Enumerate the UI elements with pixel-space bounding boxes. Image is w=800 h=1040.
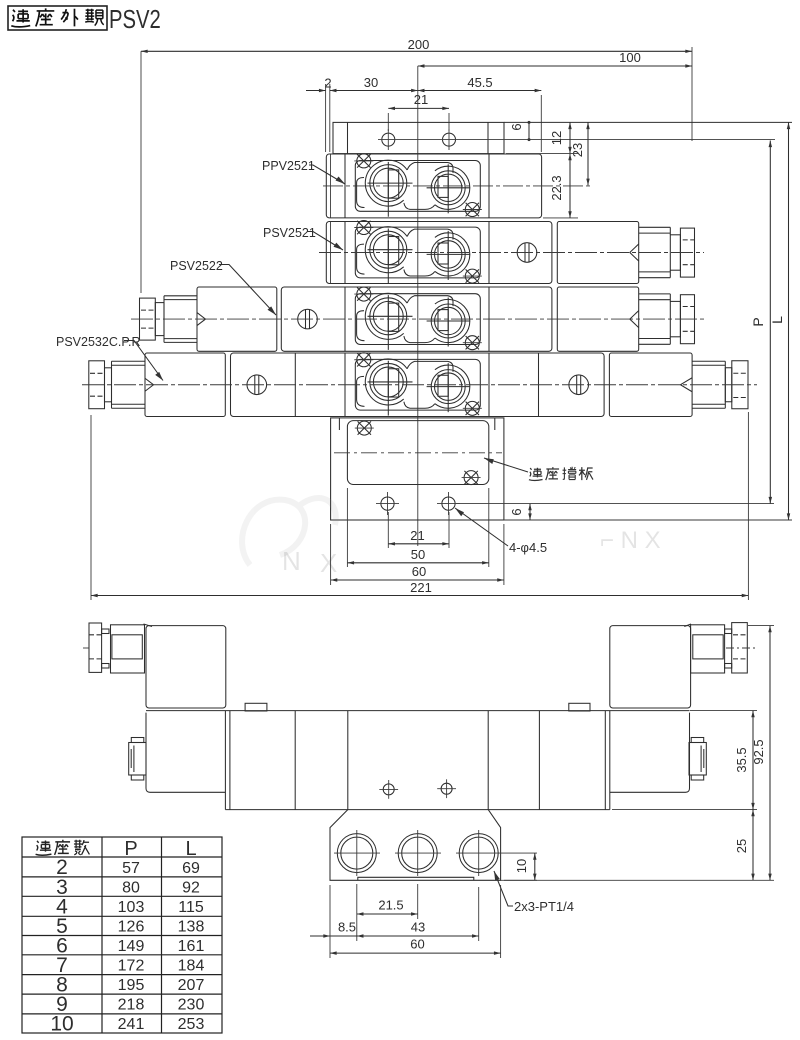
svg-text:8.5: 8.5 bbox=[338, 920, 356, 935]
row4 valve face ports bbox=[354, 353, 482, 416]
dim 221 bbox=[91, 412, 748, 600]
top plate bbox=[333, 122, 504, 153]
label PSV2521 bbox=[263, 226, 343, 250]
label 4-phi4.5 bbox=[455, 508, 547, 555]
row3 flow arrow right bbox=[630, 311, 639, 328]
svg-text:PSV2532C.P.R: PSV2532C.P.R bbox=[56, 335, 141, 349]
row4 PSV2532C.P.R valve bbox=[82, 353, 757, 417]
svg-text:60: 60 bbox=[410, 937, 424, 952]
svg-text:10: 10 bbox=[514, 859, 529, 873]
svg-text:21.5: 21.5 bbox=[378, 898, 403, 913]
svg-text:50: 50 bbox=[411, 547, 425, 562]
port 1 bbox=[334, 830, 380, 876]
label PPV2521 bbox=[262, 159, 345, 184]
svg-text:L: L bbox=[769, 316, 785, 324]
row4 left cap bbox=[89, 361, 105, 409]
row4 body bbox=[231, 353, 605, 417]
svg-text:25: 25 bbox=[734, 839, 749, 853]
dim 2 bbox=[306, 76, 332, 153]
row4 right prongs bbox=[692, 360, 725, 362]
title box bbox=[8, 5, 161, 34]
svg-text:⌐ N X: ⌐ N X bbox=[600, 527, 661, 554]
center axis vertical bbox=[417, 66, 419, 546]
dim 21 bottom bbox=[388, 512, 449, 548]
svg-text:22.3: 22.3 bbox=[549, 175, 564, 200]
right plug centerline bbox=[726, 647, 757, 649]
plate tab hole right bbox=[437, 492, 460, 515]
right solenoid block bbox=[610, 624, 691, 708]
svg-text:6: 6 bbox=[509, 123, 524, 130]
svg-text:60: 60 bbox=[412, 564, 426, 579]
dim 92.5 bbox=[504, 626, 774, 881]
top band lines bbox=[504, 121, 792, 123]
svg-text:21: 21 bbox=[414, 92, 428, 107]
port block bbox=[330, 810, 501, 881]
svg-text:230: 230 bbox=[178, 997, 205, 1014]
svg-text:4-φ4.5: 4-φ4.5 bbox=[509, 540, 547, 555]
dim 45.5 bbox=[418, 75, 542, 152]
tab hole centerline to P dim bbox=[456, 503, 774, 505]
svg-text:218: 218 bbox=[118, 997, 145, 1014]
main body bbox=[146, 711, 690, 810]
dim 100 bbox=[418, 50, 692, 66]
dim 43 bbox=[357, 887, 479, 941]
row2 centerline bbox=[319, 252, 704, 254]
svg-text:138: 138 bbox=[178, 919, 205, 936]
dim 12 bbox=[549, 122, 570, 153]
dim L bbox=[769, 122, 789, 520]
svg-text:149: 149 bbox=[118, 938, 145, 955]
label PSV2522 bbox=[170, 259, 276, 315]
plate bottom line to L dim bbox=[504, 519, 792, 521]
svg-text:221: 221 bbox=[410, 580, 432, 595]
row3 left solenoid bbox=[197, 287, 277, 351]
row3 solenoid right bbox=[557, 287, 638, 351]
dim 22.3 bbox=[506, 154, 578, 218]
svg-text:6: 6 bbox=[509, 508, 524, 515]
row4 right cap bbox=[732, 361, 748, 409]
bottom plate bbox=[331, 418, 504, 520]
svg-text:X: X bbox=[320, 548, 337, 578]
right plug neck bars bbox=[725, 629, 732, 634]
row2 PSV2521 valve bbox=[319, 221, 704, 284]
svg-text:23: 23 bbox=[570, 143, 585, 157]
plate bolt bottom-right bbox=[462, 471, 481, 485]
body top tabs bbox=[245, 703, 267, 711]
row3 valve face ports bbox=[354, 287, 482, 350]
svg-text:69: 69 bbox=[182, 860, 200, 877]
row4 solenoid right bbox=[609, 353, 692, 417]
dim 30 bbox=[330, 75, 418, 91]
row3 left cap bbox=[140, 298, 156, 340]
svg-text:126: 126 bbox=[118, 919, 145, 936]
svg-text:253: 253 bbox=[178, 1016, 205, 1033]
label PSV2532C.P.R bbox=[56, 335, 163, 381]
row2 valve face ports bbox=[354, 221, 482, 284]
row4 left solenoid bbox=[145, 353, 225, 417]
left DIN plug cap bbox=[89, 623, 102, 672]
body small hole right bbox=[437, 779, 456, 798]
svg-text:12: 12 bbox=[549, 131, 564, 145]
plate hole right bbox=[443, 129, 456, 150]
dim 21 top bbox=[388, 92, 449, 131]
row1 valve face ports bbox=[354, 154, 482, 217]
svg-text:L: L bbox=[185, 838, 196, 860]
row4 adjustment screw left bbox=[247, 375, 267, 395]
label 2x3-PT1/4 bbox=[494, 871, 574, 914]
body small hole left bbox=[379, 780, 398, 799]
port 2 bbox=[395, 830, 441, 876]
svg-text:172: 172 bbox=[118, 958, 145, 975]
left plug body bbox=[111, 625, 145, 673]
svg-text:21: 21 bbox=[410, 528, 424, 543]
row4 flow arrow left bbox=[145, 378, 154, 391]
svg-text:P: P bbox=[124, 838, 137, 860]
watermark bbox=[242, 498, 336, 565]
right nut bbox=[689, 738, 706, 781]
svg-text:PPV2521: PPV2521 bbox=[262, 159, 315, 173]
svg-text:35.5: 35.5 bbox=[734, 747, 749, 772]
dim 25 bbox=[734, 810, 753, 881]
row4 centerline bbox=[82, 384, 757, 386]
right DIN plug body bbox=[691, 625, 725, 673]
label 連座擋板 bbox=[484, 458, 593, 480]
dim 23 bbox=[570, 122, 588, 185]
row2 adjustment screw bbox=[517, 243, 537, 263]
svg-text:200: 200 bbox=[408, 37, 430, 52]
svg-text:N: N bbox=[282, 546, 301, 576]
dim 6 bottom right bbox=[509, 504, 530, 520]
row3 flow arrow left bbox=[197, 313, 206, 326]
svg-text:92: 92 bbox=[182, 880, 200, 897]
dim 60 bottom bbox=[330, 885, 501, 958]
svg-text:184: 184 bbox=[178, 958, 205, 975]
row3 adjustment screw left bbox=[298, 309, 318, 329]
dim 21.5 bbox=[357, 884, 418, 941]
dim 8.5 bbox=[310, 920, 357, 937]
TOP VIEW bbox=[56, 37, 792, 600]
dim 35.5 bbox=[612, 711, 757, 810]
svg-text:10: 10 bbox=[50, 1013, 73, 1036]
left nut bbox=[129, 738, 146, 781]
table bbox=[22, 837, 222, 1036]
row3 centerline bbox=[131, 318, 704, 320]
svg-text:115: 115 bbox=[178, 899, 204, 916]
left plug centerline bbox=[83, 647, 89, 649]
svg-text:43: 43 bbox=[411, 920, 425, 935]
svg-text:241: 241 bbox=[118, 1016, 145, 1033]
row4 left prongs bbox=[112, 360, 146, 362]
dim P bbox=[750, 141, 770, 504]
left plug neck bars bbox=[102, 629, 109, 634]
left solenoid block bbox=[144, 624, 226, 708]
plate tab hole left bbox=[376, 492, 399, 515]
svg-text:30: 30 bbox=[364, 75, 378, 90]
plate hole left bbox=[382, 129, 395, 150]
svg-text:161: 161 bbox=[178, 938, 205, 955]
svg-text:57: 57 bbox=[122, 860, 140, 877]
svg-text:PSV2522: PSV2522 bbox=[170, 259, 223, 273]
svg-text:103: 103 bbox=[118, 899, 145, 916]
plate bolt top-left bbox=[355, 421, 374, 435]
svg-text:92.5: 92.5 bbox=[751, 739, 766, 764]
row3 left prongs bbox=[164, 295, 197, 297]
dim 200 bbox=[141, 37, 692, 293]
svg-text:100: 100 bbox=[619, 50, 641, 65]
svg-text:80: 80 bbox=[122, 880, 140, 897]
svg-text:PSV2521: PSV2521 bbox=[263, 226, 316, 240]
left end plate bbox=[146, 713, 225, 793]
svg-text:207: 207 bbox=[178, 977, 205, 994]
row3 body bbox=[281, 287, 552, 351]
svg-text:P: P bbox=[750, 317, 766, 326]
BOTTOM VIEW bbox=[83, 623, 774, 958]
row4 adjustment screw right bbox=[569, 375, 589, 395]
row1 PPV2521 supply plate bbox=[323, 154, 592, 218]
row2 solenoid right bbox=[557, 222, 638, 284]
port 3 bbox=[456, 830, 537, 876]
dim 6 top bbox=[509, 121, 531, 141]
row4 flow arrow right bbox=[680, 378, 692, 392]
row2 flow arrow bbox=[630, 244, 639, 261]
svg-text:195: 195 bbox=[118, 977, 145, 994]
right end plate bbox=[610, 713, 690, 793]
right plug cap bbox=[732, 623, 748, 673]
dim 10 bbox=[501, 853, 537, 880]
plate hole centerline extended right bbox=[378, 139, 775, 141]
row3 PSV2522 valve bbox=[131, 287, 704, 351]
svg-text:2x3-PT1/4: 2x3-PT1/4 bbox=[514, 899, 574, 914]
svg-text:45.5: 45.5 bbox=[467, 75, 492, 90]
dim 50 bbox=[347, 488, 488, 567]
row3 right connector bbox=[639, 294, 695, 344]
dim 60 top-drawing bbox=[331, 524, 504, 585]
svg-text:PSV2: PSV2 bbox=[109, 5, 161, 34]
row2 right connector bbox=[639, 227, 695, 277]
